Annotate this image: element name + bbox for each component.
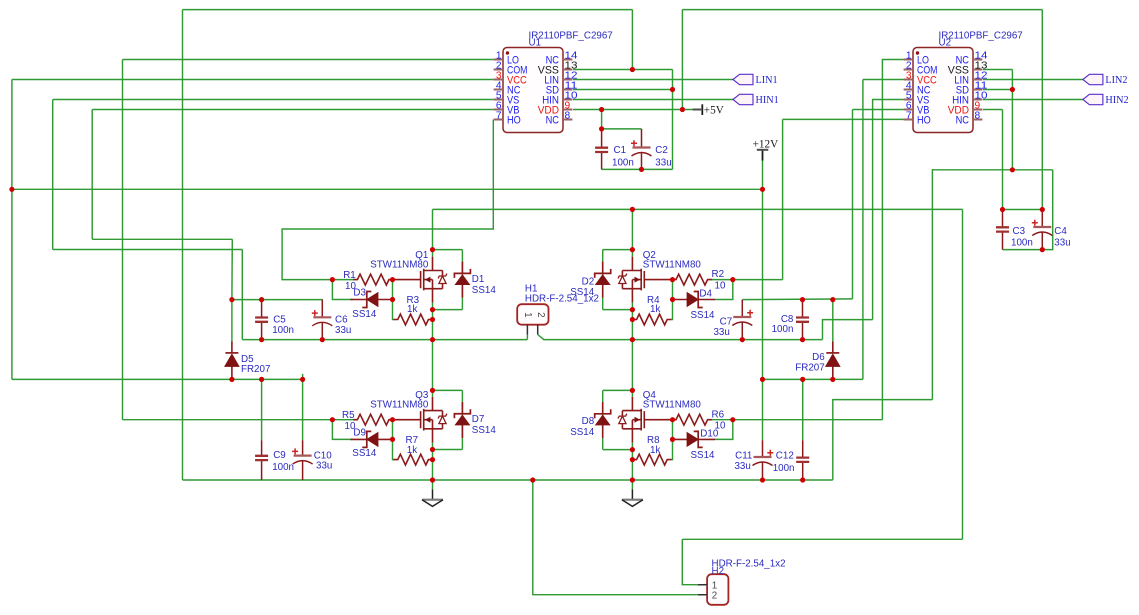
op-amp U1 IR2110PBF_C2967 pin 1 stub	[494, 59, 503, 61]
netport LIN2	[1083, 74, 1103, 84]
wire VS1 drop to phase rail	[241, 250, 243, 340]
wire Q1 gate node down to R3	[393, 280, 394, 320]
wire U2 VB pin6 out	[853, 109, 904, 111]
wire H2 pin1 row y=539.3	[682, 538, 962, 540]
op-amp U1 IR2110PBF_C2967 pin 14 stub	[563, 59, 572, 61]
wire Q3 source to D7 bottom	[433, 449, 463, 451]
junction D10 anode	[670, 437, 675, 442]
wire U1 VDD pin9 to +5V	[573, 109, 693, 111]
svg-text:C12: C12	[776, 451, 794, 462]
svg-text:LIN1: LIN1	[756, 75, 778, 86]
wire ground to H2 pin2	[533, 480, 698, 595]
wire VCC1/+12V vertical x=11.9	[11, 80, 13, 380]
wire C10 riser	[302, 379, 304, 440]
junction Q2 drain	[630, 247, 635, 252]
junction VSS1 riser	[630, 67, 635, 72]
wire U1 VSS pin13 to riser	[573, 69, 673, 71]
diode D4 SS14	[673, 299, 716, 301]
svg-text:LIN2: LIN2	[1105, 75, 1127, 86]
wire U1 VCC pin3 row	[12, 79, 494, 81]
op-amp U2 IR2110PBF_C2967 pin 2 stub	[904, 69, 913, 71]
netport HIN2	[1083, 94, 1103, 104]
wire VSS/SD riser x=672.5	[672, 70, 674, 170]
wire ground to right jog	[833, 400, 933, 480]
op-amp U2 IR2110PBF_C2967 pin 1 stub	[904, 59, 913, 61]
svg-text:D6: D6	[812, 352, 825, 363]
capacitor C9 100n	[261, 440, 263, 480]
junction C2 bottom	[639, 167, 644, 172]
junction Q4 drain	[630, 388, 635, 393]
svg-text:IR2110PBF_C2967: IR2110PBF_C2967	[529, 30, 613, 41]
capacitor C12 100n	[802, 440, 804, 480]
transistor Q3 STW11NM80	[393, 397, 443, 443]
svg-text:33u: 33u	[655, 158, 671, 169]
junction +12V rail / VCC1	[9, 187, 14, 192]
svg-text:2: 2	[535, 312, 546, 317]
wire VCC2 riser	[862, 80, 864, 380]
wire ground riser x=182.5	[182, 10, 184, 480]
wire Q4 gate node down to R8	[672, 420, 673, 460]
svg-text:1k: 1k	[407, 304, 417, 315]
junction C12 riser	[800, 377, 805, 382]
junction Q3 drain	[430, 388, 435, 393]
svg-text:R1: R1	[343, 270, 356, 281]
resistor R7 (1k)	[394, 459, 395, 461]
svg-text:+12V: +12V	[753, 139, 779, 151]
wire U1 LIN pin12 to LIN1 flag	[573, 79, 733, 81]
resistor R1 (10)	[332, 279, 354, 281]
junction Q2 source / D2	[630, 307, 635, 312]
wire drain bus y=209.4	[433, 208, 963, 210]
op-amp U1 IR2110PBF_C2967 pin 4 stub	[494, 89, 503, 91]
svg-text:100n: 100n	[1011, 238, 1033, 249]
wire C12 riser	[802, 379, 804, 440]
op-amp U2 IR2110PBF_C2967 pin 4 stub	[904, 89, 913, 91]
op-amp U1 IR2110PBF_C2967 pin 11 stub	[563, 89, 572, 91]
capacitor C10 33u	[302, 440, 304, 480]
wire Q2 source to phase rail	[631, 310, 633, 340]
junction C8 top	[800, 297, 805, 302]
svg-text:NC: NC	[546, 115, 559, 127]
junction SD1	[670, 87, 675, 92]
wire VDD2 riser to C3	[1002, 110, 1004, 210]
power +12V symbol	[762, 150, 764, 161]
junction C11 bottom	[760, 477, 765, 482]
junction SD2	[1010, 87, 1015, 92]
wire Q2 drain to D2 top	[603, 249, 633, 251]
svg-text:HDR-F-2.54_1x2: HDR-F-2.54_1x2	[525, 294, 599, 305]
transistor Q1 STW11NM80	[393, 257, 443, 303]
junction Q3 gate	[390, 417, 395, 422]
wire U1 SD pin11 row	[573, 89, 673, 91]
svg-text:D5: D5	[241, 354, 254, 365]
wire C5-C6 top rail y=299.6	[232, 299, 323, 301]
svg-text:1k: 1k	[650, 445, 660, 456]
junction C5 bottom	[259, 337, 264, 342]
svg-text:D1: D1	[472, 274, 485, 285]
junction Q4 gate	[670, 417, 675, 422]
op-amp U1 IR2110PBF_C2967 pin 10 stub	[563, 99, 572, 101]
op-amp U2 IR2110PBF_C2967 pin 5 stub	[904, 99, 913, 101]
svg-text:33u: 33u	[734, 461, 750, 472]
wire ground bus y=169.8	[932, 170, 1052, 400]
svg-text:C2: C2	[655, 145, 668, 156]
junction Q2 gate	[670, 277, 675, 282]
diode D9 SS14	[351, 438, 393, 440]
wire C1-C2 top rail	[602, 128, 642, 130]
svg-text:D7: D7	[472, 414, 485, 425]
wire riser to C4 top	[1041, 10, 1043, 210]
wire Q4 source to D8 bottom	[603, 449, 633, 451]
junction phase / Q1 leg	[430, 337, 435, 342]
junction C10 riser	[300, 377, 305, 382]
wire U1 VB pin6 row	[92, 109, 493, 111]
junction C1 top	[599, 126, 604, 131]
junction R8 left	[630, 457, 635, 462]
junction C4 bottom	[1040, 247, 1045, 252]
wire Q4 drain to D8 top	[603, 389, 633, 391]
wire VB1 drop to bootstrap rail	[231, 239, 233, 299]
svg-text:1k: 1k	[650, 304, 660, 315]
junction D3 anode	[390, 297, 395, 302]
junction D4 anode	[670, 297, 675, 302]
wire C9 riser	[261, 379, 263, 440]
op-amp U1 IR2110PBF_C2967 pin 6 stub	[494, 109, 503, 111]
junction C12 bottom	[800, 477, 805, 482]
svg-text:SS14: SS14	[691, 450, 716, 461]
junction D9 anode	[390, 437, 395, 442]
wire Q2 gate node down to R4	[672, 280, 673, 320]
op-amp U2 IR2110PBF_C2967	[913, 48, 973, 133]
junction ground / Q3	[430, 477, 435, 482]
svg-text:D4: D4	[699, 288, 712, 299]
svg-text:D9: D9	[353, 427, 366, 438]
capacitor C1 100n	[601, 129, 603, 170]
svg-text:R6: R6	[712, 409, 725, 420]
junction Q3 source / D7	[430, 447, 435, 452]
wire C3-C4 bottom rail	[1003, 249, 1043, 251]
op-amp U2 IR2110PBF_C2967 pin 10 stub	[973, 99, 982, 101]
capacitor C5 100n	[261, 300, 263, 340]
wire R6 outer to LO2 riser	[733, 419, 883, 421]
svg-text:R2: R2	[712, 269, 725, 280]
wire +12V right rail y=379.4	[763, 378, 863, 380]
wire U1 LO pin1 row	[123, 59, 494, 61]
wire U1 VS pin5 row	[53, 99, 494, 101]
junction R5 left / LO1	[330, 417, 335, 422]
svg-text:7: 7	[496, 111, 502, 122]
svg-text:SS14: SS14	[691, 310, 716, 321]
svg-text:100n: 100n	[773, 463, 795, 474]
junction ground / Q4	[630, 477, 635, 482]
op-amp U2 IR2110PBF_C2967 pin 8 stub	[973, 119, 982, 121]
capacitor C7 33u	[741, 300, 743, 340]
wire +12V left rail y=379.4	[12, 378, 303, 380]
connector H2 HDR-F-2.54_1x2	[707, 574, 728, 605]
wire U2 HIN pin10 to HIN2 flag	[983, 99, 1083, 101]
wire drain bus riser x=962.5	[962, 209, 964, 539]
wire R2 outer to HO2 riser	[733, 279, 783, 281]
svg-text:SS14: SS14	[352, 309, 377, 320]
op-amp U2 IR2110PBF_C2967 pin 9 stub	[973, 109, 982, 111]
wire VB1 vertical x=92.2	[91, 110, 93, 240]
svg-text:100n: 100n	[272, 462, 294, 473]
svg-text:8: 8	[975, 111, 981, 122]
wire U2 VCC pin3 out	[863, 79, 904, 81]
svg-text:100n: 100n	[772, 324, 794, 335]
wire phase rail A left	[242, 339, 527, 341]
wire LO1 vertical x=122.5	[122, 60, 124, 420]
resistor R8 (1k)	[670, 459, 671, 461]
diode D10 SS14	[673, 438, 716, 440]
junction R1 left / HO1	[330, 277, 335, 282]
svg-text:100n: 100n	[612, 158, 634, 169]
svg-text:C3: C3	[1013, 226, 1026, 237]
wire Q1 drain to D1 top	[433, 249, 463, 251]
junction D6 top	[830, 297, 835, 302]
junction R4 left	[630, 317, 635, 322]
op-amp U1 IR2110PBF_C2967 pin 13 stub	[563, 69, 572, 71]
svg-text:HIN1: HIN1	[756, 95, 779, 106]
op-amp U2 IR2110PBF_C2967 pin 14 stub	[973, 59, 982, 61]
op-amp U1 IR2110PBF_C2967 pin1 marker	[506, 51, 509, 54]
wire C3-C4 top rail	[1003, 209, 1043, 211]
svg-text:IR2110PBF_C2967: IR2110PBF_C2967	[939, 30, 1023, 41]
wire top bus +5V net (y=9.6 right)	[682, 9, 1042, 11]
junction VDD1 / +5V riser	[680, 107, 685, 112]
junction Q1 source / D1	[430, 307, 435, 312]
op-amp U2 IR2110PBF_C2967 pin 3 stub	[904, 79, 913, 81]
capacitor C3 100n	[1002, 210, 1004, 250]
resistor R2 (10)	[711, 279, 733, 281]
wire R2 outer down to D4 anode	[715, 280, 733, 300]
capacitor C6 33u	[321, 300, 323, 340]
op-amp U1 IR2110PBF_C2967 pin 8 stub	[563, 119, 572, 121]
wire riser +5V to VDD1 line	[681, 10, 683, 110]
wire U2 VDD pin9 out	[983, 109, 1003, 111]
wire Q3 gate node down to R7	[393, 420, 394, 460]
svg-text:FR207: FR207	[241, 364, 270, 375]
diode D7 SS14	[461, 390, 463, 449]
op-amp U1 IR2110PBF_C2967 pin 9 stub	[563, 109, 572, 111]
transistor Q4 STW11NM80	[622, 397, 672, 443]
svg-text:HO: HO	[507, 115, 521, 127]
op-amp U2 IR2110PBF_C2967 pin 7 stub	[904, 119, 913, 121]
power +5V symbol	[693, 109, 702, 111]
svg-text:1k: 1k	[407, 445, 417, 456]
netport LIN1	[733, 74, 753, 84]
wire phase rail B right	[538, 335, 823, 340]
wire R6 outer down to D10 anode	[715, 420, 733, 440]
op-amp U2 IR2110PBF_C2967 pin 12 stub	[973, 79, 982, 81]
junction D6 anode	[830, 377, 835, 382]
junction VB1 / D5 / C5 rail	[229, 297, 234, 302]
junction C8 bottom	[800, 337, 805, 342]
svg-text:C1: C1	[614, 145, 627, 156]
svg-text:7: 7	[906, 111, 912, 122]
svg-text:R5: R5	[342, 410, 355, 421]
transistor Q2 STW11NM80	[622, 257, 672, 303]
wire H1 pin1 drop	[526, 335, 528, 340]
wire C11 riser	[762, 379, 764, 440]
svg-text:D10: D10	[700, 429, 719, 440]
svg-text:C4: C4	[1054, 226, 1067, 237]
junction ground / H2 riser	[530, 477, 535, 482]
op-amp U1 IR2110PBF_C2967 pin 12 stub	[563, 79, 572, 81]
junction C9 riser	[259, 377, 264, 382]
wire VB1 row y=239.3	[92, 238, 232, 240]
wire U1 HIN pin10 to HIN1 flag	[573, 99, 733, 101]
diode D3 SS14	[351, 299, 393, 301]
wire HO2 riser x=782.6	[782, 119, 784, 279]
capacitor C8 100n	[802, 300, 804, 340]
wire U2 VSS pin13 out	[983, 69, 1012, 71]
diode D1 SS14	[461, 250, 463, 310]
wire stub above C10 node	[302, 374, 304, 380]
junction Q1 gate	[390, 277, 395, 282]
diode D6 FR207	[832, 300, 834, 342]
H1 pin stubs	[527, 325, 537, 335]
resistor R5 (10)	[332, 419, 354, 421]
junction VSS2 / ground bus	[1010, 167, 1015, 172]
wire Q3 drain to D7 top	[433, 389, 463, 391]
resistor R6 (10)	[711, 419, 733, 421]
svg-text:33u: 33u	[316, 461, 332, 472]
junction Q4 source / D8	[630, 447, 635, 452]
svg-text:D8: D8	[582, 416, 595, 427]
junction D5 anode +12V	[229, 377, 234, 382]
op-amp U2 IR2110PBF_C2967 pin1 marker	[916, 51, 919, 54]
junction C4 top	[1040, 207, 1045, 212]
junction R7 right	[430, 457, 435, 462]
capacitor C4 33u	[1041, 210, 1043, 250]
svg-text:2: 2	[712, 590, 717, 601]
wire Q2 drain riser	[631, 209, 633, 249]
wire down to C3/C4 bottom rail	[1042, 170, 1052, 250]
H2 pin stubs	[698, 585, 707, 595]
op-amp U1 IR2110PBF_C2967 pin 2 stub	[494, 69, 503, 71]
svg-text:C9: C9	[273, 450, 286, 461]
svg-text:SS14: SS14	[472, 425, 497, 436]
junction +12V right rail	[760, 377, 765, 382]
wire U2 LIN pin12 to LIN2 flag	[983, 79, 1083, 81]
wire riser to U1 VSS	[631, 10, 633, 70]
wire ground rail y=480	[183, 479, 833, 481]
wire Q3 source to ground rail	[432, 450, 434, 481]
wire VS1 vertical x=52.7	[52, 100, 54, 250]
junction C3 top	[1000, 207, 1005, 212]
svg-text:HIN2: HIN2	[1105, 95, 1128, 106]
wire VSS2 riser	[1011, 70, 1013, 170]
svg-text:8: 8	[565, 111, 571, 122]
ground symbol left	[432, 480, 434, 489]
svg-text:U1: U1	[529, 38, 542, 49]
svg-text:FR207: FR207	[795, 362, 824, 373]
op-amp U2 IR2110PBF_C2967 pin 6 stub	[904, 109, 913, 111]
wire C7-C8 top rail y=299.6	[742, 298, 852, 301]
wire R5 dot to D9 loop	[332, 420, 352, 440]
junction Q1 drain	[430, 247, 435, 252]
svg-text:STW11NM80: STW11NM80	[643, 400, 702, 411]
svg-text:D3: D3	[353, 287, 366, 298]
op-amp U2 IR2110PBF_C2967 pin 13 stub	[973, 69, 982, 71]
svg-text:SS14: SS14	[352, 448, 377, 459]
wire Q4 source to ground rail	[631, 450, 633, 480]
wire phase to Q4 drain	[631, 340, 633, 391]
svg-text:SS14: SS14	[472, 285, 497, 296]
wire +12V rail y=189.3	[12, 188, 763, 190]
svg-text:100n: 100n	[272, 325, 294, 336]
junction R3 right	[430, 317, 435, 322]
svg-text:+5V: +5V	[704, 105, 724, 117]
wire phase to Q3 drain	[432, 340, 434, 391]
connector H1 HDR-F-2.54_1x2	[517, 304, 548, 325]
wire +12V riser x=762.5	[762, 160, 764, 379]
resistor R4 (1k)	[670, 319, 671, 321]
wire VS1 row y=249.5	[53, 249, 243, 251]
svg-text:10: 10	[715, 281, 726, 292]
svg-text:33u: 33u	[713, 327, 729, 338]
svg-text:33u: 33u	[335, 325, 351, 336]
wire U2 SD pin11 row	[983, 89, 1012, 91]
wire Q2 source to D2 bottom	[603, 309, 633, 311]
wire LO1 row to R5	[123, 419, 333, 421]
wire Q1 drain riser	[432, 209, 434, 249]
junction R2 outer / HO2	[730, 277, 735, 282]
svg-text:U2: U2	[939, 38, 952, 49]
op-amp U1 IR2110PBF_C2967 pin 7 stub	[494, 119, 503, 121]
diode D5 FR207	[231, 300, 233, 342]
wire Q1 source to phase rail	[432, 310, 434, 340]
wire VS2 jog	[823, 320, 873, 340]
svg-text:D2: D2	[582, 276, 595, 287]
op-amp U1 IR2110PBF_C2967	[503, 48, 563, 133]
junction C5 top	[259, 297, 264, 302]
wire top bus VSS1 net (y=9.6 left)	[183, 9, 633, 11]
svg-text:C6: C6	[335, 314, 348, 325]
junction R6 outer / LO2	[730, 417, 735, 422]
svg-text:STW11NM80: STW11NM80	[370, 259, 429, 270]
diode D8 SS14	[602, 390, 604, 449]
svg-text:STW11NM80: STW11NM80	[370, 400, 429, 411]
svg-text:NC: NC	[956, 115, 969, 127]
netport HIN1	[733, 94, 753, 104]
junction C6 bottom	[320, 337, 325, 342]
op-amp U1 IR2110PBF_C2967 pin 5 stub	[494, 99, 503, 101]
junction C7 bottom	[740, 337, 745, 342]
wire R1 dot to D3 cathode loop	[332, 280, 352, 300]
svg-text:H2: H2	[712, 566, 725, 577]
wire Q1 source to D1 bottom	[433, 309, 463, 311]
svg-text:HO: HO	[917, 115, 931, 127]
op-amp U1 IR2110PBF_C2967 pin 3 stub	[494, 79, 503, 81]
wire U2 HO pin7 row	[783, 118, 904, 120]
ground symbol right	[631, 480, 633, 489]
capacitor C2 33u	[641, 129, 643, 170]
svg-text:33u: 33u	[1054, 238, 1070, 249]
junction drain bus / Q2	[630, 207, 635, 212]
wire U1 HO to R1 (HO1 net)	[282, 120, 493, 280]
resistor R3 (1k)	[394, 319, 395, 321]
svg-text:STW11NM80: STW11NM80	[643, 259, 702, 270]
junction +12V symbol	[760, 187, 765, 192]
junction phase / Q2 leg	[630, 337, 635, 342]
svg-text:1: 1	[522, 312, 533, 317]
junction VDD1 / C1	[599, 107, 604, 112]
wire VB2 riser	[852, 110, 854, 299]
wire LO2 riser to U2 pin1	[882, 60, 903, 420]
wire VDD to C1/C2 top jog	[601, 110, 603, 129]
